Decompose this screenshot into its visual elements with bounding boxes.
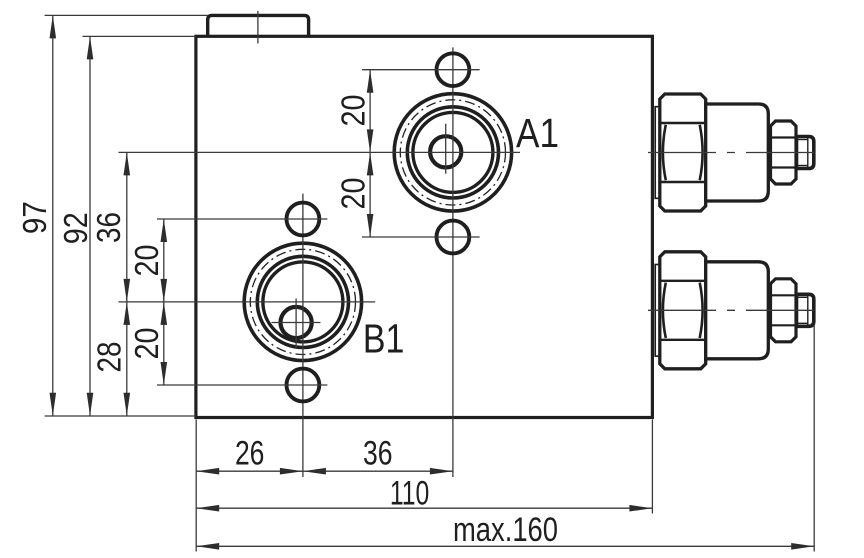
upper valve stem inner vertical line [807, 138, 809, 167]
port B1 outer circle [244, 243, 361, 360]
port A1 outer circle [394, 94, 511, 211]
manifold block body outline [196, 36, 653, 417]
lower valve body [706, 262, 769, 359]
upper valve small hex facet bottom [771, 166, 797, 168]
port B1 bolt circle (dash-dot) [250, 249, 355, 354]
lower cartridge valve [648, 252, 820, 369]
lower valve small hex [771, 279, 797, 342]
lower valve hex nut facet line top [660, 280, 706, 282]
lower valve centerline (dash-dot) [648, 309, 820, 311]
lower valve stem inner horizontal lines [797, 296, 808, 298]
svg-text:max.160: max.160 [453, 511, 558, 549]
extension line bottom left (block bottom) [45, 415, 196, 417]
svg-text:110: 110 [390, 474, 430, 512]
port B1 vertical centerline [302, 194, 304, 477]
lower valve adjusting screw stem [797, 294, 814, 326]
B1 bottom bolt hole horizontal line [157, 384, 327, 386]
upper valve nut chamfer arc right [700, 125, 703, 180]
port A1 pilot hole vertical crosshair [445, 124, 447, 174]
upper valve hex nut facet line bottom [660, 181, 706, 183]
dimension line 36/28 vertical [126, 152, 128, 415]
lower valve hex nut [660, 252, 706, 369]
A1 top bolt hole [437, 53, 470, 86]
lower valve small hex facet top [771, 294, 797, 296]
tab centerline [257, 11, 259, 44]
dimension line 20/20 left vertical [163, 219, 165, 385]
upper valve centerline (dash-dot) [648, 152, 820, 154]
upper valve stem inner horizontal lines [797, 139, 808, 141]
dimension line 97 [52, 15, 54, 415]
port A1 seal ring [407, 107, 498, 198]
port A1 horizontal centerline [119, 151, 521, 153]
extension line bottom (block left edge) [195, 420, 197, 552]
port A1 vertical centerline [452, 47, 454, 477]
dimension line 20/20 A1 vertical [369, 70, 371, 237]
svg-text:28: 28 [91, 342, 128, 373]
lower valve nut chamfer arc left [663, 283, 666, 338]
upper valve body [706, 104, 769, 201]
port B1 horizontal centerline [119, 301, 376, 303]
lower valve stem inner vertical line [807, 296, 809, 325]
dimension line max.160 [196, 545, 814, 547]
extension line top (92, block top) [83, 35, 196, 37]
svg-text:92: 92 [57, 212, 94, 244]
dimension line 26/36 bottom [196, 470, 453, 472]
upper valve adjusting screw stem [797, 137, 814, 169]
port B1 pilot hole horizontal crosshair [272, 322, 321, 324]
upper cartridge valve [648, 94, 820, 211]
dimension line 92 [89, 36, 91, 415]
upper valve washer [655, 107, 660, 199]
lower valve nut chamfer arc right [700, 283, 703, 338]
upper valve nut chamfer arc left [663, 125, 666, 180]
svg-text:36: 36 [363, 434, 393, 472]
upper valve hex nut facet line top [660, 122, 706, 124]
port A1 counterbore ring [413, 112, 493, 192]
svg-text:97: 97 [16, 201, 53, 234]
upper valve small hex [771, 121, 797, 184]
A1 bottom bolt hole [437, 221, 470, 254]
top mounting tab [208, 15, 309, 36]
svg-text:20: 20 [335, 178, 372, 210]
B1 bottom bolt hole [287, 369, 320, 402]
extension line bottom (block right edge) [651, 420, 653, 514]
A1 bottom bolt hole horizontal line [362, 236, 480, 238]
B1 top bolt hole horizontal line [157, 218, 327, 220]
lower valve washer [655, 265, 660, 357]
extension line top (97, tab top) [45, 14, 208, 16]
svg-text:B1: B1 [363, 316, 405, 362]
svg-text:26: 26 [235, 434, 265, 472]
svg-text:A1: A1 [516, 110, 559, 156]
port B1 pilot hole [281, 307, 312, 338]
upper valve small hex facet top [771, 136, 797, 138]
lower valve small hex facet bottom [771, 324, 797, 326]
port B1 seal ring [257, 256, 348, 347]
upper valve hex nut [660, 94, 706, 211]
port B1 counterbore ring [263, 262, 343, 342]
dimension line 110 [196, 507, 652, 509]
port A1 pilot hole [430, 136, 461, 167]
port B1 pilot hole vertical crosshair [295, 299, 297, 349]
A1 top bolt hole horizontal line [362, 69, 480, 71]
svg-text:36: 36 [90, 212, 127, 243]
svg-text:20: 20 [128, 328, 165, 360]
extension line bottom (valve stem right) [813, 325, 815, 552]
port A1 bolt circle (dash-dot) [400, 100, 505, 205]
svg-text:20: 20 [335, 95, 372, 127]
svg-text:20: 20 [128, 245, 165, 277]
lower valve hex nut facet line bottom [660, 339, 706, 341]
B1 top bolt hole [287, 203, 320, 236]
